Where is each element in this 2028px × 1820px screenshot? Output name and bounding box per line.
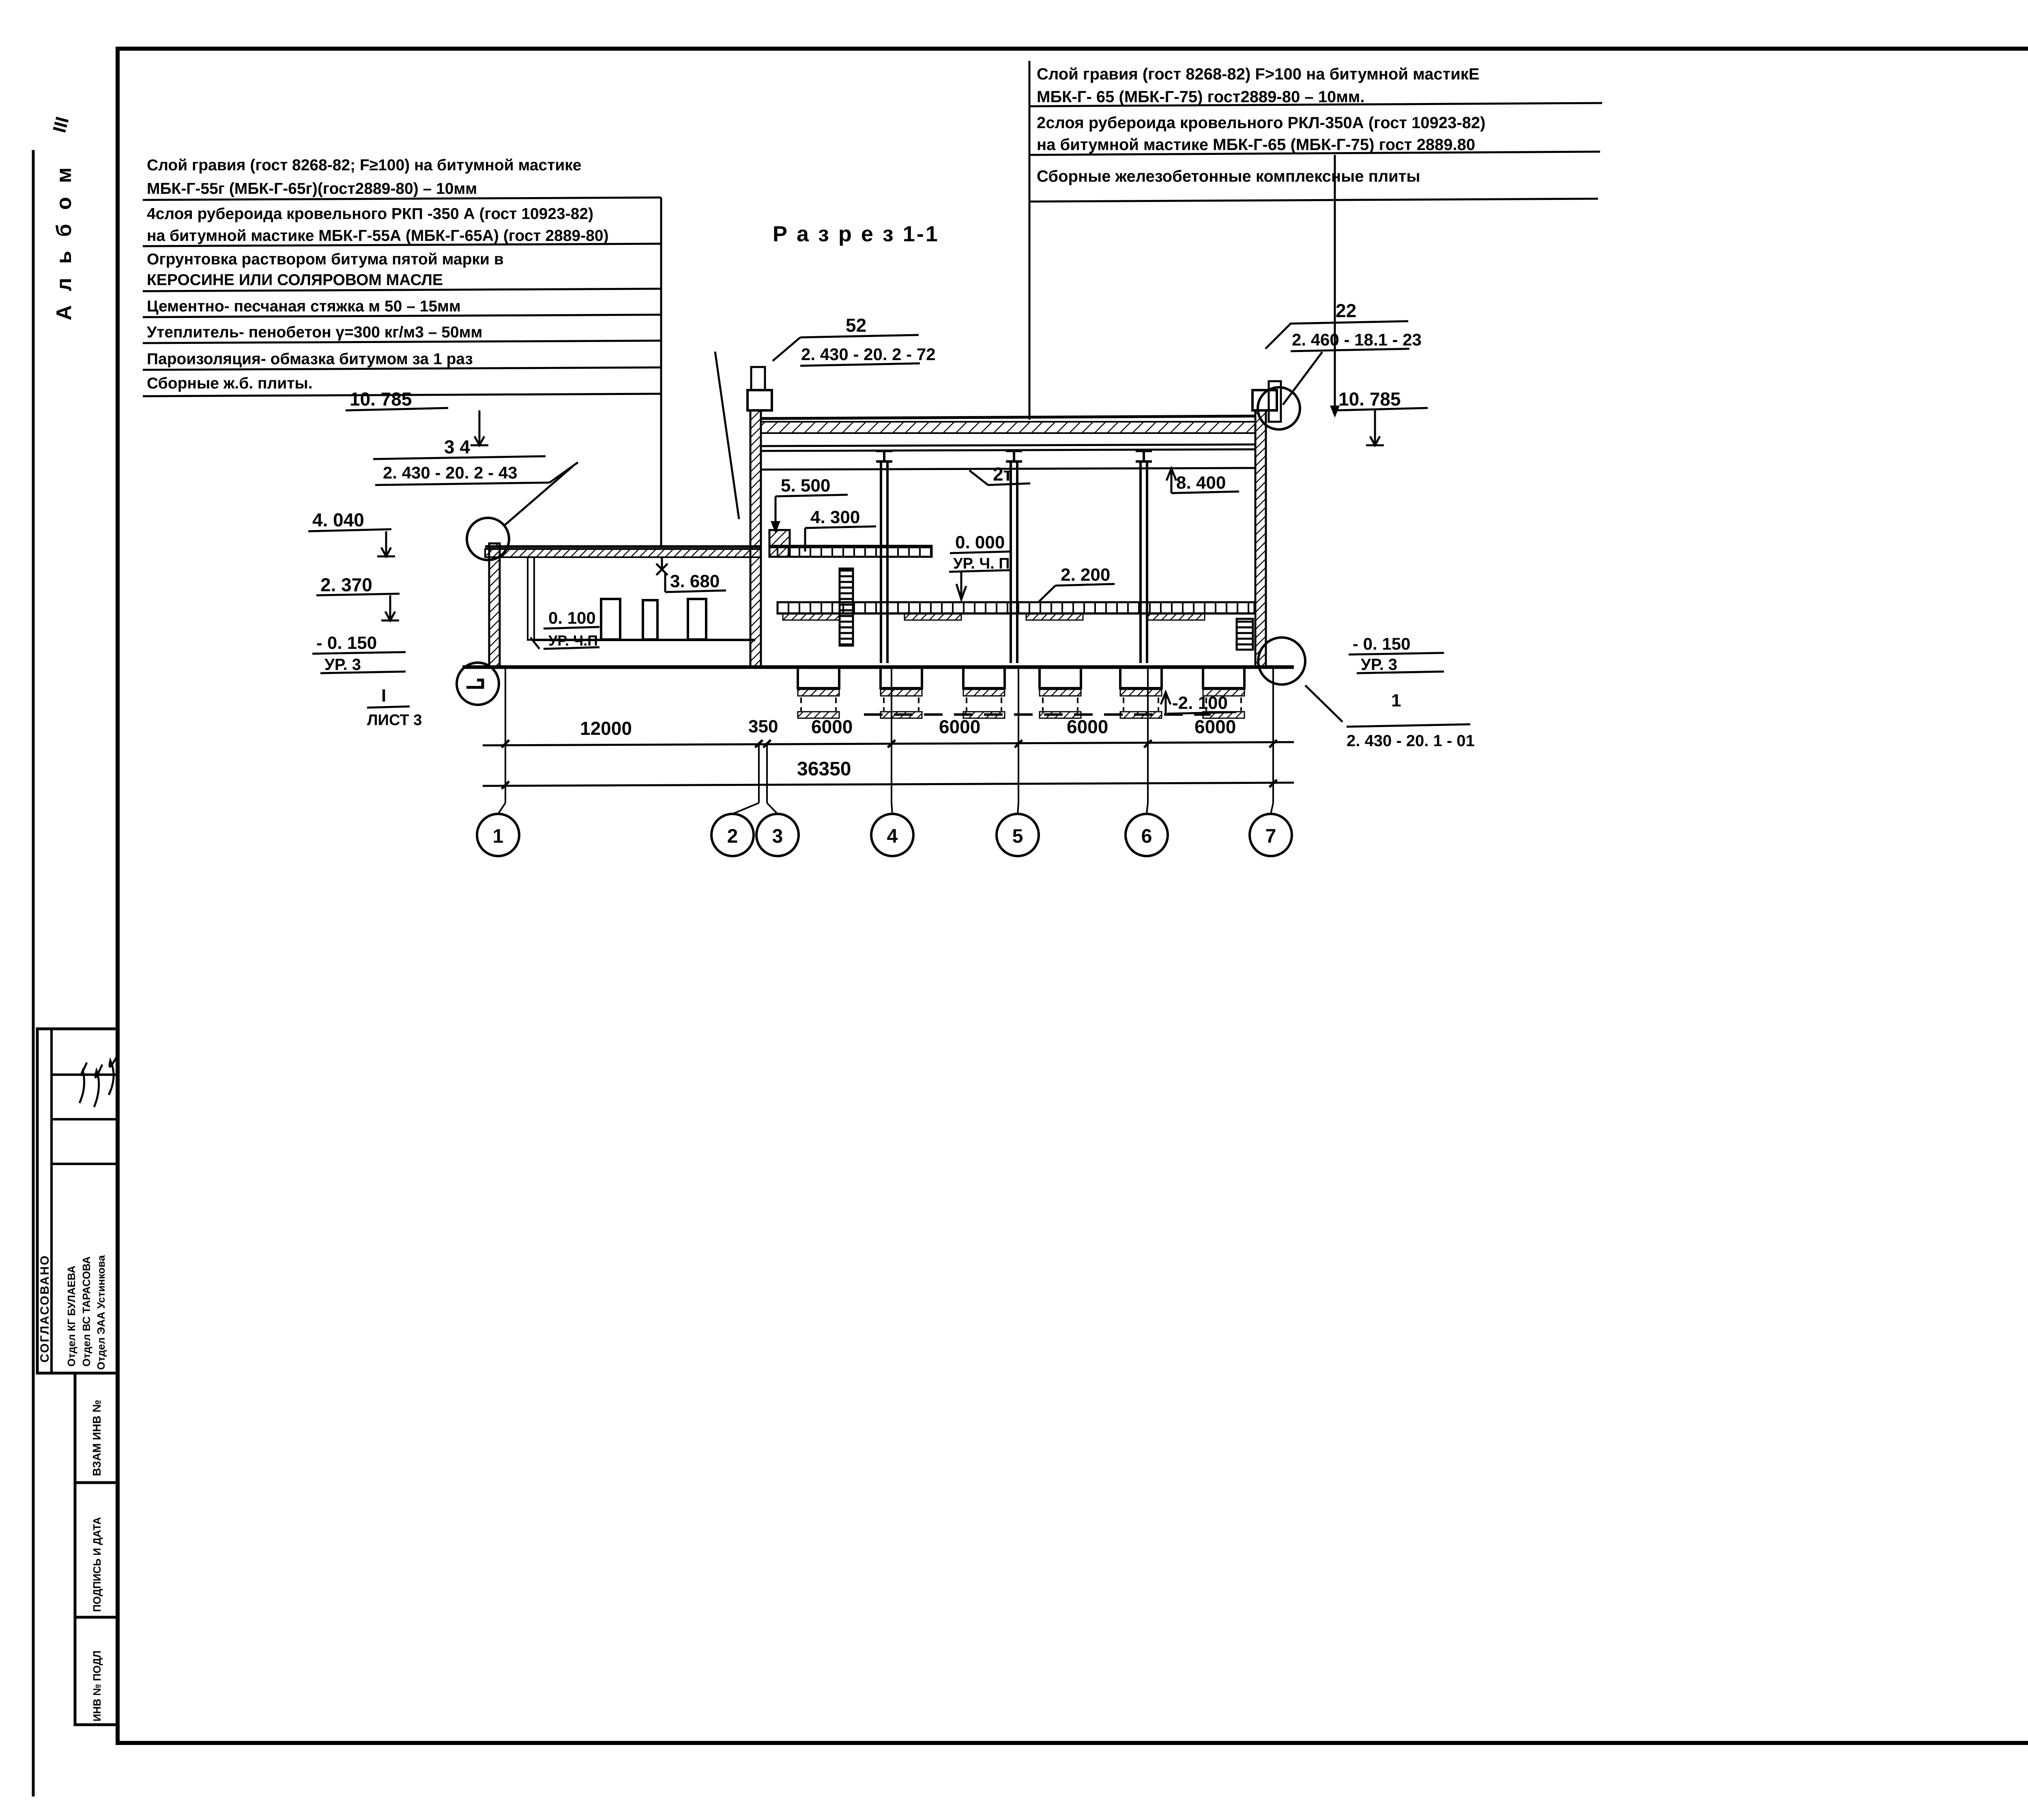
low building door leafs [601,599,620,640]
svg-text:4. 040: 4. 040 [312,509,364,530]
svg-text:2т: 2т [993,464,1012,485]
svg-text:36350: 36350 [797,758,851,780]
sheet outer edge line [32,150,35,1796]
basement dashed level line [864,713,1211,716]
foundation pedestals [798,667,839,688]
junction detail circles [467,518,509,560]
-2.100 level flag [1161,692,1171,704]
svg-text:10. 785: 10. 785 [1338,388,1401,410]
svg-text:- 0. 150: - 0. 150 [316,633,377,653]
svg-text:А л ь б о м: А л ь б о м [52,163,76,320]
low building roof slab [485,545,760,548]
axis circle 1 (section) [505,667,506,803]
ladder [840,569,853,646]
svg-text:3. 680: 3. 680 [670,571,720,591]
low building interior floor [533,639,755,641]
axis circle 3 (section) [766,742,768,803]
axis circle 4 (section) [891,667,892,803]
stair block at platform [769,530,790,557]
svg-text:-2. 100: -2. 100 [1172,693,1228,713]
columns [880,461,882,663]
svg-text:Пароизоляция- обмазка битумом: Пароизоляция- обмазка битумом за 1 раз [147,350,473,368]
svg-text:4слоя рубероида кровельного: 4слоя рубероида кровельного РКП -350 А (… [147,205,593,223]
axis circle 7 (section) [1272,667,1274,803]
svg-text:3: 3 [772,826,783,847]
section dim row 2 : 36350 [483,783,1294,786]
svg-text:УР. 3: УР. 3 [1361,656,1397,674]
roof truss bottom line [761,444,1255,446]
mid leader with arrow down to hall roof [1334,155,1336,414]
svg-text:КЕРОСИНЕ ИЛИ СОЛЯРОВОМ М: КЕРОСИНЕ ИЛИ СОЛЯРОВОМ МАСЛЕ [147,271,443,289]
hall right wall [1255,410,1266,667]
crane beam line [761,468,1255,470]
svg-text:5. 500: 5. 500 [781,476,830,496]
svg-text:ЛИСТ 3: ЛИСТ 3 [367,712,422,729]
svg-text:2. 430 - 20. 2 - 72: 2. 430 - 20. 2 - 72 [801,345,936,364]
svg-text:0. 000: 0. 000 [955,532,1005,552]
svg-text:6000: 6000 [811,716,853,737]
svg-text:Слой гравия (гост 8268-82) F: Слой гравия (гост 8268-82) F>100 на биту… [1037,65,1480,83]
3.680 flag [656,564,668,575]
svg-text:I: I [381,686,386,706]
svg-text:УР. Ч.П: УР. Ч.П [548,632,598,649]
low building left wall [489,543,500,667]
svg-text:Сборные ж.б. плиты.: Сборные ж.б. плиты. [147,375,313,392]
svg-text:10. 785: 10. 785 [350,388,412,410]
svg-text:Отдел ЭАА Устинкова: Отдел ЭАА Устинкова [95,1255,107,1370]
svg-text:22: 22 [1336,300,1356,321]
leader from spec block down to low roof [660,197,662,547]
svg-text:6000: 6000 [1067,716,1108,737]
взам инв cells [75,1373,117,1483]
svg-text:52: 52 [846,315,866,336]
svg-text:2: 2 [727,826,738,847]
ground line [462,665,1294,669]
svg-text:0. 100: 0. 100 [548,608,596,627]
callout 1 / 2.430-20.1-01 right [1305,685,1343,722]
roof I-beams [876,451,892,461]
svg-text:СОГЛАСОВАНО: СОГЛАСОВАНО [38,1254,52,1363]
svg-text:на битумной мастике МБК-Г-55: на битумной мастике МБК-Г-55А (МБК-Г-65А… [147,227,609,245]
svg-text:2слоя рубероида кровельног: 2слоя рубероида кровельного РКЛ-350А (го… [1037,114,1485,132]
svg-text:2. 200: 2. 200 [1061,565,1110,585]
svg-text:Слой гравия (гост 8268-82; F≥1: Слой гравия (гост 8268-82; F≥100) на бит… [147,157,582,174]
svg-text:- 0. 150: - 0. 150 [1353,634,1410,653]
svg-text:5: 5 [1012,826,1023,847]
right-side ladder [1237,619,1253,650]
svg-text:Сборные железобетонные компл: Сборные железобетонные комплексные плиты [1037,167,1420,185]
svg-text:3 4: 3 4 [444,436,470,457]
svg-text:ПОДПИСЬ И ДАТА: ПОДПИСЬ И ДАТА [91,1517,103,1612]
svg-text:Отдел ВС ТАРАСОВА: Отдел ВС ТАРАСОВА [80,1256,92,1367]
block left leader down to hall roof [1029,61,1031,420]
hall left wall [750,410,761,667]
signature squiggles [79,1062,87,1103]
svg-text:на битумной мастике МБК-Г-6: на битумной мастике МБК-Г-65 (МБК-Г-75) … [1037,136,1475,154]
hall right parapet [1252,390,1277,410]
svg-text:ИНВ № ПОДЛ: ИНВ № ПОДЛ [91,1650,103,1721]
svg-text:350: 350 [748,717,778,736]
svg-text:2. 430 - 20. 2 - 43: 2. 430 - 20. 2 - 43 [383,463,518,482]
mezzanine slab 2.200 (checkered) [778,602,1255,614]
svg-text:1: 1 [1391,691,1401,710]
svg-text:МБК-Г-55г (МБК-Г-65г)(гост2889: МБК-Г-55г (МБК-Г-65г)(гост2889-80) – 10м… [147,180,477,197]
axis circle 6 (section) [1147,667,1149,803]
svg-text:Утеплитель- пенобетон γ=300 кг: Утеплитель- пенобетон γ=300 кг/м3 – 50мм [147,324,482,341]
axis circle 2 (section) [758,742,760,803]
svg-text:8. 400: 8. 400 [1176,473,1226,493]
svg-text:2. 460 - 18.1 - 23: 2. 460 - 18.1 - 23 [1292,330,1422,349]
svg-text:1: 1 [493,826,504,847]
axis circle 5 (section) [1018,667,1019,803]
svg-text:2. 430 - 20. 1 - 01: 2. 430 - 20. 1 - 01 [1347,732,1475,750]
svg-text:6000: 6000 [939,716,980,737]
svg-text:Огрунтовка раствором битума: Огрунтовка раствором битума пятой марки … [147,251,504,268]
svg-text:4. 300: 4. 300 [810,507,860,527]
svg-text:УР. 3: УР. 3 [324,656,361,674]
svg-text:6: 6 [1141,826,1152,847]
svg-text:4: 4 [887,826,898,847]
signature table left margin [37,1029,117,1373]
4.300 platform (checkered) [769,546,932,557]
svg-text:Р а з р е з 1-1: Р а з р е з 1-1 [773,222,939,246]
svg-text:6000: 6000 [1194,716,1236,737]
hall roof slab [761,416,1255,419]
low building inner wall [528,557,534,640]
svg-text:7: 7 [1265,826,1276,847]
mezzanine hatched underside [783,614,840,620]
svg-text:Отдел КГ БУЛАЕВА: Отдел КГ БУЛАЕВА [65,1266,77,1367]
section dim row 1 [483,742,1294,745]
svg-text:Цементно- песчаная стяжка м 5: Цементно- песчаная стяжка м 50 – 15мм [147,298,461,315]
svg-text:ВЗАМ ИНВ №: ВЗАМ ИНВ № [90,1400,103,1476]
svg-text:МБК-Г- 65 (МБК-Г-75) гост2889-: МБК-Г- 65 (МБК-Г-75) гост2889-80 – 10мм. [1037,88,1365,106]
hall left parapet [748,390,772,410]
svg-text:2. 370: 2. 370 [320,574,372,595]
svg-text:12000: 12000 [580,718,632,739]
